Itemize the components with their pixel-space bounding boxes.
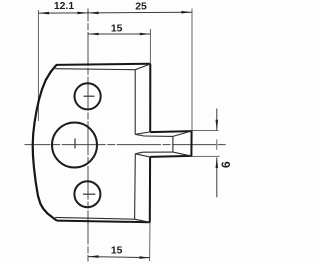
extension line x=150 bottom: [149, 222, 151, 261]
miter to tab inner top: [135, 134, 144, 136]
dim 6: centerline crossing tick: [216, 140, 218, 150]
tab outer right: [190, 131, 192, 157]
dim line 15 top: [88, 33, 150, 35]
dim 6: lower shaft+arrow: [216, 157, 218, 197]
dim 6: leader top: [191, 129, 218, 131]
left curved edge: [33, 65, 57, 221]
tab inner right: [172, 136, 174, 152]
dim 6: leader bottom: [191, 155, 220, 157]
miter tab bottom-right: [173, 152, 192, 156]
horizontal centerline: [25, 144, 226, 146]
tab inner top: [144, 135, 173, 137]
outer profile: top edge: [56, 64, 150, 65]
dim line 25: [88, 11, 192, 14]
svg-text:15: 15: [111, 23, 123, 34]
inner right upper: [134, 70, 136, 135]
extension line x=150 top: [149, 29, 151, 64]
box edge diagonal top junction: [135, 132, 150, 134]
box edge diagonal bottom junction: [135, 154, 150, 157]
svg-text:15: 15: [111, 246, 123, 257]
hole bottom small: [74, 181, 100, 207]
svg-text:12.1: 12.1: [54, 1, 74, 12]
inner top bevel line: [55, 69, 135, 70]
miter from tab inner bottom: [135, 152, 142, 154]
vertical centerline: [87, 9, 89, 262]
dim 6: upper shaft+arrow: [216, 109, 218, 131]
svg-text:6: 6: [219, 161, 233, 168]
miter top-right: [135, 64, 150, 70]
tab outer top: [150, 131, 191, 132]
svg-text:25: 25: [135, 1, 147, 12]
hole top small: [75, 83, 101, 109]
extension line x=192: [191, 9, 193, 131]
outer bottom edge: [57, 221, 150, 223]
dim line 12.1: [38, 12, 88, 14]
hole bottom center dash: [83, 193, 95, 195]
miter bottom-right: [135, 219, 150, 222]
hole big center dash: [74, 138, 76, 148]
outer right edge upper: [149, 64, 151, 132]
inner bottom bevel line: [55, 217, 134, 219]
outer right edge lower: [149, 157, 151, 222]
tab inner bottom: [143, 151, 173, 153]
inner right lower: [134, 154, 137, 219]
miter tab top-right: [173, 131, 192, 136]
hole big center: [52, 123, 97, 168]
tab outer bottom: [150, 156, 191, 157]
hole top center dash: [84, 95, 95, 97]
extension line 12.1 left: [37, 10, 39, 121]
dim line 15 bottom: [88, 257, 150, 258]
